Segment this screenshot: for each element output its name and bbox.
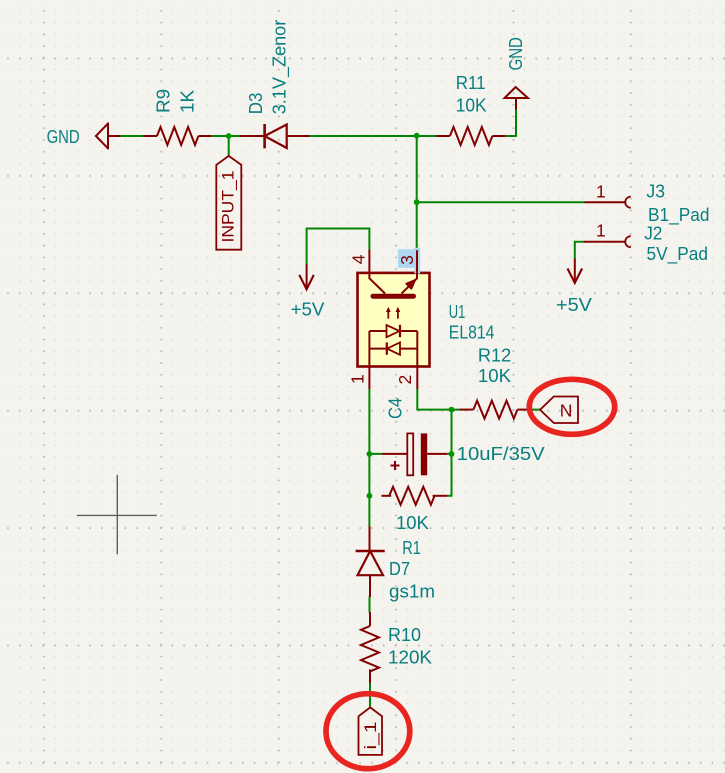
svg-text:10K: 10K — [396, 513, 429, 533]
svg-text:INPUT_1: INPUT_1 — [220, 171, 238, 243]
svg-text:10uF/35V: 10uF/35V — [457, 444, 545, 464]
svg-text:i_1: i_1 — [362, 722, 380, 750]
svg-text:+5V: +5V — [291, 299, 325, 319]
svg-text:gs1m: gs1m — [389, 581, 435, 601]
svg-text:10K: 10K — [478, 366, 511, 386]
svg-text:3: 3 — [397, 255, 417, 265]
svg-text:4: 4 — [349, 254, 369, 264]
svg-text:5V_Pad: 5V_Pad — [647, 244, 709, 265]
svg-text:R1: R1 — [402, 538, 421, 558]
svg-text:R11: R11 — [456, 73, 486, 93]
svg-text:10K: 10K — [456, 95, 487, 115]
svg-text:N: N — [560, 401, 573, 421]
svg-text:1K: 1K — [178, 90, 198, 113]
svg-text:EL814: EL814 — [449, 322, 495, 342]
svg-text:J2: J2 — [644, 223, 662, 243]
svg-text:1: 1 — [596, 221, 606, 241]
svg-text:R9: R9 — [153, 89, 173, 113]
svg-text:120K: 120K — [388, 647, 432, 667]
svg-text:GND: GND — [506, 37, 526, 70]
svg-text:C4: C4 — [385, 398, 405, 419]
svg-text:2: 2 — [395, 375, 415, 385]
svg-text:R12: R12 — [478, 345, 511, 365]
svg-text:GND: GND — [47, 127, 80, 147]
svg-text:J3: J3 — [646, 182, 665, 202]
svg-text:D3: D3 — [246, 93, 266, 115]
svg-text:3.1V_Zenor: 3.1V_Zenor — [270, 20, 291, 115]
svg-text:1: 1 — [596, 181, 606, 201]
svg-text:U1: U1 — [449, 302, 466, 322]
svg-text:1: 1 — [348, 374, 368, 384]
svg-text:+5V: +5V — [556, 295, 592, 315]
svg-text:R10: R10 — [388, 625, 421, 645]
svg-text:D7: D7 — [389, 559, 410, 579]
